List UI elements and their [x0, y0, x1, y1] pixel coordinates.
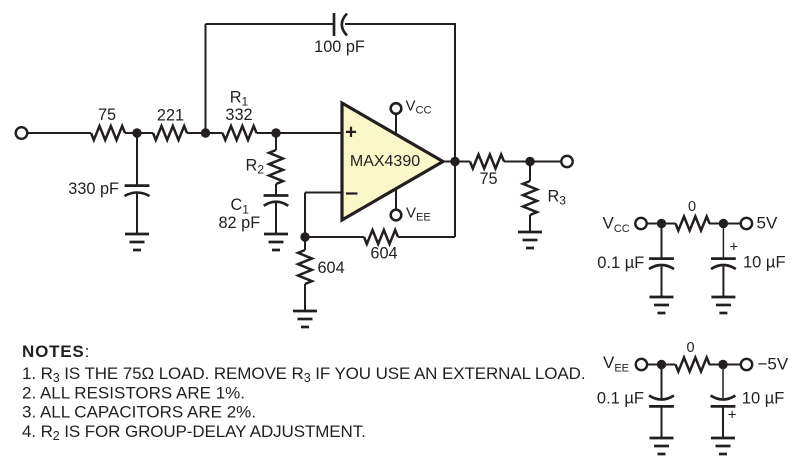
ground (C330) [125, 234, 149, 250]
-5V terminal [741, 359, 752, 370]
ground (R3) [518, 232, 542, 248]
node H junction [719, 219, 728, 228]
svg-text:82 pF: 82 pF [219, 214, 261, 232]
resistor 604 (feedback) [364, 230, 398, 244]
ground (C10 VCC) [711, 297, 735, 313]
wire node F up [304, 193, 306, 238]
wire VCC terminal to node G [647, 223, 675, 225]
input terminal [16, 127, 28, 139]
svg-text:332: 332 [225, 106, 252, 124]
node C junction [271, 128, 280, 137]
node E junction [525, 157, 534, 166]
svg-text:10 µF: 10 µF [742, 390, 785, 408]
wire C1 to ground [275, 203, 277, 234]
wire feedback right vertical [454, 24, 456, 237]
wire to - input [305, 192, 342, 194]
op-amp U1 MAX4390 [342, 103, 443, 220]
svg-text:0: 0 [686, 340, 694, 356]
ground (C1) [264, 234, 288, 250]
svg-text:330 pF: 330 pF [68, 180, 119, 198]
wire feedback bottom right [398, 236, 455, 238]
wire C10 VEE to ground [722, 406, 724, 438]
wire C0.1 to ground [661, 267, 663, 298]
wire node J to C 10uF VEE [722, 365, 724, 399]
wire node A down to C330 [136, 133, 138, 185]
resistor 0 (VEE) [676, 358, 710, 372]
wire input to R75in [28, 132, 92, 134]
pin + label [346, 127, 356, 137]
svg-text:−5V: −5V [758, 355, 789, 374]
5V terminal [741, 218, 752, 229]
svg-text:604: 604 [318, 259, 345, 277]
resistor 75 (input) [91, 126, 125, 140]
wire node G to C 0.1uF [661, 224, 663, 259]
wire R75out to output terminal [504, 161, 561, 163]
wire feedback top left [206, 23, 335, 25]
svg-text:10 µF: 10 µF [743, 254, 786, 272]
svg-text:604: 604 [370, 245, 397, 263]
wire node E to R3 [529, 162, 531, 182]
svg-text:1. R3 IS THE 75Ω LOAD. REMOVE: 1. R3 IS THE 75Ω LOAD. REMOVE R3 IF YOU … [22, 364, 585, 385]
wire R2 to C1 [275, 184, 277, 196]
wire 604 to node F [305, 236, 364, 238]
svg-text:0.1 µF: 0.1 µF [597, 390, 644, 408]
svg-text:2. ALL RESISTORS ARE 1%.: 2. ALL RESISTORS ARE 1%. [22, 383, 245, 402]
ground (C10 VEE) [711, 438, 735, 454]
node J junction [718, 360, 727, 369]
wire node C to R2 [275, 133, 277, 150]
wire C0.1 VEE to ground [661, 406, 663, 438]
capacitor 10 uF (VCC) [711, 259, 736, 269]
node A junction [132, 128, 141, 137]
wire 604 to ground [304, 284, 306, 311]
svg-text:3. ALL CAPACITORS ARE 2%.: 3. ALL CAPACITORS ARE 2%. [22, 403, 256, 422]
pin - label [346, 192, 358, 194]
wire C330 to ground [136, 194, 138, 235]
output terminal [561, 156, 572, 167]
wire R1 to node C [257, 132, 343, 134]
svg-text:75: 75 [98, 106, 116, 124]
node I junction [657, 360, 666, 369]
wire 221 to node B [187, 132, 223, 134]
svg-text:MAX4390: MAX4390 [350, 153, 420, 170]
node F junction [300, 232, 309, 241]
svg-text:75: 75 [479, 170, 497, 188]
resistor 604 (to ground) [298, 250, 312, 284]
wire VEE pin stub [395, 188, 397, 210]
ground (C0.1 VCC) [650, 297, 674, 313]
wire R3 to ground [529, 215, 531, 232]
capacitor C1 [264, 196, 289, 206]
svg-text:221: 221 [157, 106, 184, 124]
capacitor 10 uF (VEE) [711, 396, 736, 407]
VCC pin circle [391, 103, 402, 114]
node B junction [201, 128, 210, 137]
wire output to node D [443, 161, 470, 163]
svg-text:0: 0 [688, 199, 696, 215]
svg-text:NOTES:: NOTES: [22, 342, 90, 361]
wire node B up feedback left [205, 24, 207, 133]
wire node H to C 10uF [722, 224, 724, 259]
resistor 0 (VCC) [676, 217, 710, 231]
wire C10 to ground [722, 267, 724, 298]
wire R75in to node A [125, 132, 153, 134]
wire VEE terminal to node I [648, 364, 676, 366]
VEE pin circle [391, 210, 402, 221]
svg-text:5V: 5V [757, 213, 778, 232]
svg-text:100 pF: 100 pF [314, 38, 365, 56]
wire VCC pin stub [395, 114, 397, 135]
wire node F to 604 [304, 237, 306, 250]
node G junction [657, 219, 666, 228]
wire feedback top right [345, 23, 456, 25]
svg-text:+: + [728, 407, 737, 424]
resistor R3 [523, 181, 537, 215]
resistor R2 [269, 150, 283, 184]
svg-text:0.1 µF: 0.1 µF [597, 254, 644, 272]
resistor R1 [223, 126, 257, 140]
svg-text:+: + [730, 239, 739, 256]
capacitor 0.1 uF (VEE) [649, 396, 674, 407]
ground (C0.1 VEE) [650, 438, 674, 454]
wire R0 to node J [709, 364, 741, 366]
wire R0 to node H [709, 223, 741, 225]
ground (604) [293, 311, 317, 327]
VEE terminal [636, 359, 647, 370]
svg-text:4. R2 IS FOR GROUP-DELAY ADJUS: 4. R2 IS FOR GROUP-DELAY ADJUSTMENT. [22, 422, 366, 443]
resistor 221 [153, 126, 187, 140]
node D junction [450, 157, 459, 166]
capacitor 330 pF [125, 186, 150, 196]
capacitor 0.1 uF (VCC) [649, 259, 674, 269]
VCC terminal [635, 218, 646, 229]
resistor 75 (output) [470, 155, 504, 169]
capacitor C 100 pF [334, 13, 347, 36]
wire node I to C 0.1uF VEE [661, 365, 663, 400]
